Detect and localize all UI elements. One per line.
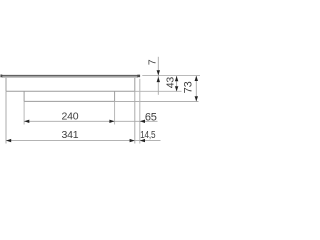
arrow 240 right / 65 left <box>109 120 114 123</box>
arrow 43 bottom <box>175 86 178 91</box>
extension line x139 glass end <box>139 79 141 144</box>
casing left side <box>5 78 7 91</box>
arrow 341 right <box>130 139 135 142</box>
arrow 341 left <box>6 139 11 142</box>
extension line x114 <box>114 101 116 124</box>
arrow 73 top <box>195 76 198 81</box>
dimension line 240 and 65 <box>24 120 157 122</box>
arrow 14,5 right <box>140 139 145 142</box>
glass panel right end cap <box>137 75 140 78</box>
svg-text:7: 7 <box>147 59 159 65</box>
glass panel bottom edge <box>2 76 138 78</box>
connection box bottom <box>24 100 115 102</box>
dimension line 341 and 14,5 <box>6 140 161 142</box>
extension line x134 <box>134 91 136 143</box>
dimension line 7 vertical <box>157 57 159 95</box>
glass panel top edge <box>2 75 140 77</box>
dimension line 43 vertical <box>176 76 178 91</box>
extension line connection box bottom right <box>115 101 199 103</box>
glass panel mid tone <box>2 76 139 78</box>
glass panel left end cap <box>0 75 2 78</box>
dimension line 73 vertical <box>195 76 197 102</box>
extension line x24 <box>23 101 25 124</box>
svg-text:14,5: 14,5 <box>140 128 155 140</box>
extension line casing bottom right <box>135 90 182 92</box>
connection box left side <box>23 91 25 101</box>
extension line left x6 <box>5 91 7 143</box>
svg-text:73: 73 <box>183 81 195 93</box>
arrow 43 top <box>175 76 178 81</box>
arrow 65 right <box>140 120 145 123</box>
casing right side <box>134 78 136 91</box>
svg-text:341: 341 <box>62 129 79 141</box>
casing bottom <box>6 90 135 92</box>
arrow 240 left <box>24 120 29 123</box>
extension line glass top right <box>142 74 200 76</box>
arrow 7 down <box>157 70 160 75</box>
connection box right side <box>114 91 116 101</box>
svg-text:240: 240 <box>61 111 78 123</box>
arrow 7 up <box>157 77 160 82</box>
arrow 73 bottom <box>195 96 198 101</box>
svg-text:65: 65 <box>145 111 157 123</box>
svg-text:43: 43 <box>164 77 176 89</box>
